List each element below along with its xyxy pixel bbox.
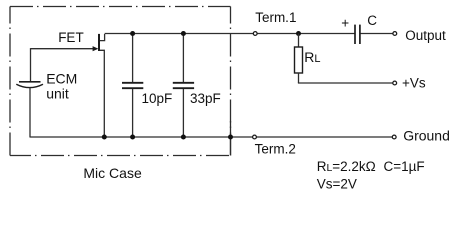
svg-text:C=1µF: C=1µF bbox=[384, 159, 425, 174]
svg-text:ECM: ECM bbox=[46, 71, 77, 87]
junction ground rail at 10pF bbox=[130, 135, 135, 140]
svg-text:unit: unit bbox=[46, 85, 69, 101]
wire top rail (drain to output) bbox=[105, 33, 393, 35]
wire electret to ground rail bbox=[29, 88, 31, 138]
terminal +Vs bbox=[393, 81, 397, 85]
ECM electret element bbox=[16, 48, 43, 137]
svg-text:33pF: 33pF bbox=[190, 91, 221, 106]
terminal Output bbox=[393, 32, 397, 36]
terminal Term.2 bbox=[253, 135, 257, 139]
plates bbox=[173, 82, 194, 84]
svg-text:Term.2: Term.2 bbox=[255, 142, 296, 157]
capacitor 10pF bbox=[122, 34, 143, 138]
transistor Q1 FET bbox=[31, 34, 105, 137]
junction ground rail at mic case bbox=[228, 135, 233, 140]
svg-text:FET: FET bbox=[58, 30, 83, 45]
wire top bbox=[132, 34, 134, 83]
svg-text:RL=2.2kΩ: RL=2.2kΩ bbox=[317, 159, 376, 174]
plates bbox=[122, 82, 143, 84]
wire bottom bbox=[182, 89, 184, 137]
wire RL bottom bbox=[298, 73, 300, 83]
junction ground rail at FET source bbox=[102, 135, 107, 140]
wire bottom bbox=[132, 89, 134, 137]
gate arrowhead bbox=[93, 46, 99, 51]
junction ground rail at 33pF bbox=[181, 135, 186, 140]
wire RL top bbox=[298, 34, 300, 48]
wire drain lead bbox=[100, 34, 105, 41]
body bbox=[295, 47, 303, 73]
capacitor C bbox=[355, 25, 360, 44]
junction top rail at 33pF bbox=[181, 31, 186, 36]
mic case dashed enclosure bbox=[10, 7, 231, 156]
terminal Ground bbox=[392, 135, 396, 139]
svg-text:+: + bbox=[341, 15, 349, 30]
svg-text:+Vs: +Vs bbox=[402, 75, 426, 90]
junction top rail at RL bbox=[296, 31, 301, 36]
electret bottom curved plate bbox=[16, 84, 43, 87]
terminal Term.1 bbox=[253, 32, 257, 36]
wire case to ground rail bbox=[230, 121, 232, 156]
capacitor 33pF bbox=[173, 34, 194, 138]
svg-text:C: C bbox=[367, 13, 377, 28]
channel bar bbox=[98, 34, 100, 51]
wire +Vs line bbox=[298, 82, 393, 84]
svg-text:Mic Case: Mic Case bbox=[83, 165, 142, 181]
wire top bbox=[182, 34, 184, 83]
wire gate lead bbox=[31, 48, 94, 50]
wire source lead bbox=[100, 50, 105, 137]
svg-text:Term.1: Term.1 bbox=[255, 10, 296, 25]
wire gate vertical bbox=[30, 48, 32, 81]
svg-text:Output: Output bbox=[405, 28, 446, 43]
wire bottom ground rail bbox=[30, 136, 392, 138]
svg-text:10pF: 10pF bbox=[142, 91, 173, 106]
svg-text:Ground: Ground bbox=[403, 128, 450, 144]
electret top plate bbox=[19, 81, 41, 83]
resistor RL bbox=[295, 34, 303, 84]
junction top rail at 10pF bbox=[130, 31, 135, 36]
svg-text:Vs=2V: Vs=2V bbox=[317, 177, 357, 192]
